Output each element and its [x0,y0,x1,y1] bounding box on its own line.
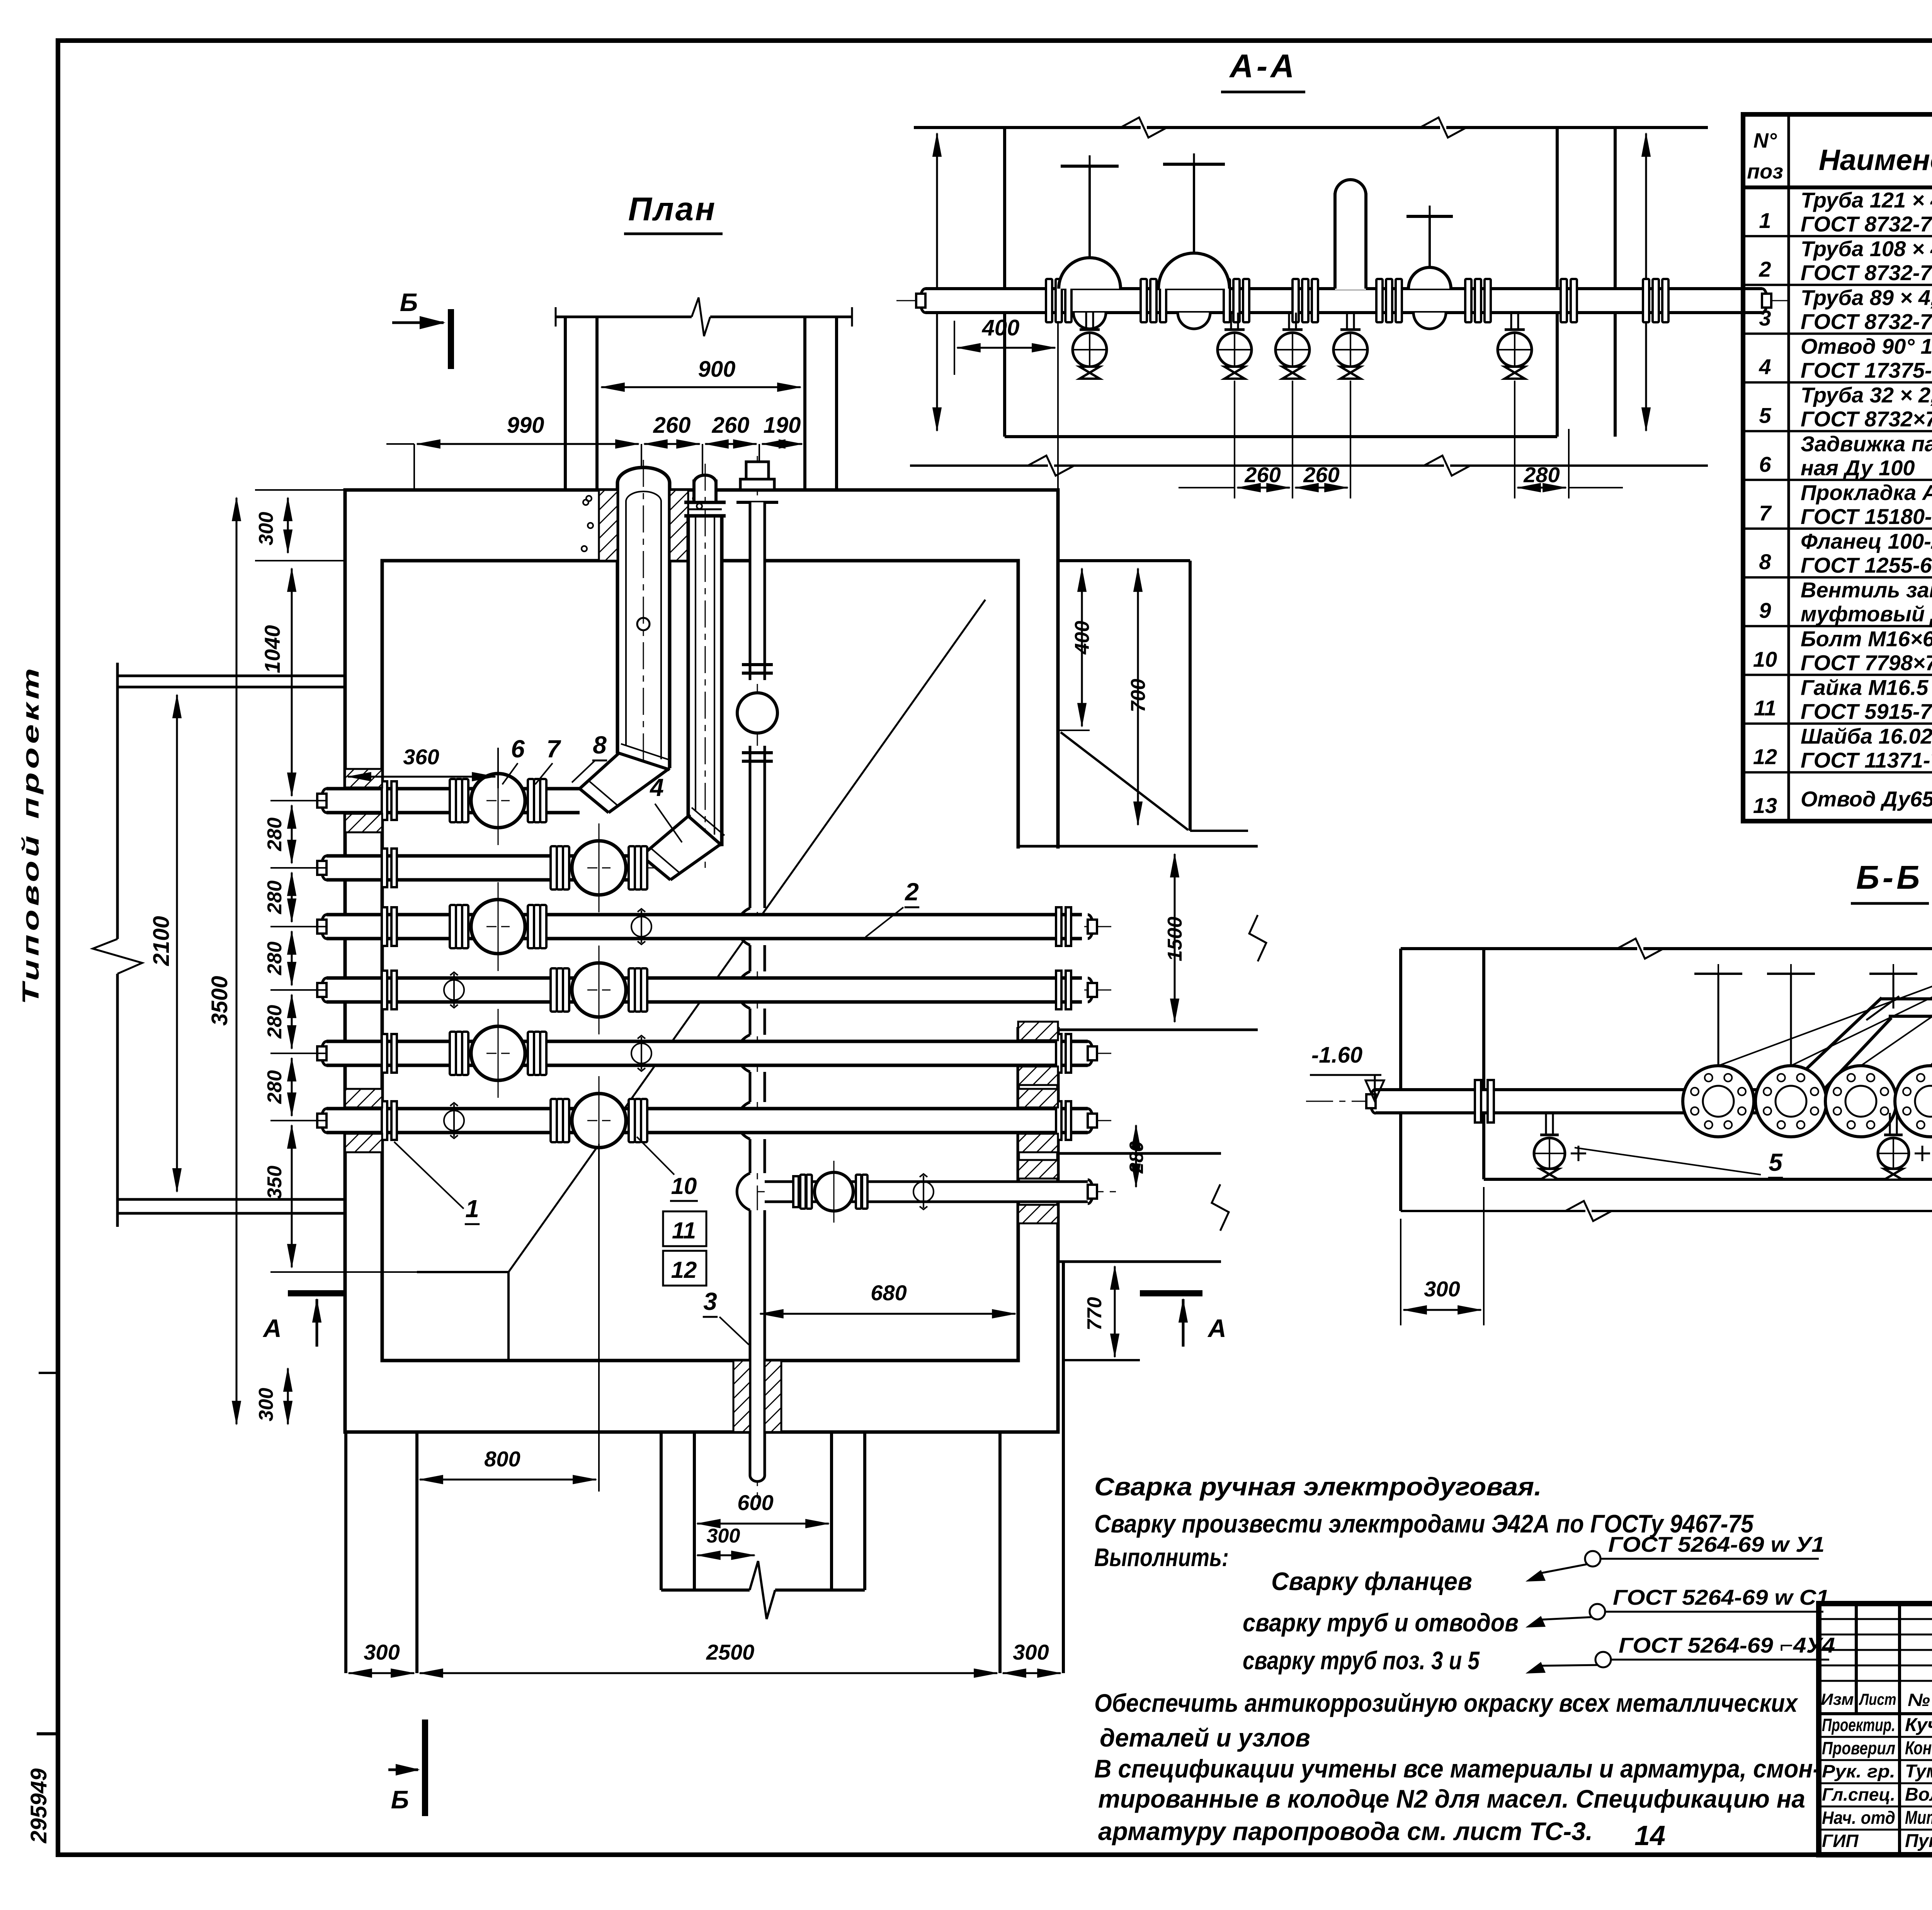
svg-text:ГОСТ 8732-78: ГОСТ 8732-78 [1801,212,1932,236]
svg-text:5: 5 [1769,1148,1783,1176]
svg-text:ГОСТ 11371-78: ГОСТ 11371-78 [1801,748,1932,772]
svg-text:ГОСТ 5915-70 *: ГОСТ 5915-70 * [1801,699,1932,724]
svg-text:ГОСТ 8732-78: ГОСТ 8732-78 [1801,260,1932,285]
svg-text:Кучеренко: Кучеренко [1905,1715,1932,1735]
svg-text:2: 2 [1759,257,1771,281]
svg-text:Болт М16×60.46: Болт М16×60.46 [1801,626,1932,651]
svg-text:Наименование: Наименование [1819,144,1932,177]
svg-text:700: 700 [1127,679,1150,713]
svg-text:2: 2 [905,878,919,906]
svg-text:3: 3 [703,1288,717,1315]
svg-text:2500: 2500 [706,1640,755,1664]
svg-text:400: 400 [982,315,1020,340]
svg-text:ГОСТ 5264-69 ⌐4У4: ГОСТ 5264-69 ⌐4У4 [1619,1633,1835,1657]
svg-text:ГОСТ 17375-77: ГОСТ 17375-77 [1801,358,1932,382]
svg-text:Задвижка параллель-: Задвижка параллель- [1801,432,1932,456]
svg-text:3500: 3500 [207,976,232,1026]
svg-text:300: 300 [1013,1640,1049,1664]
svg-text:Б-Б: Б-Б [1856,859,1923,896]
svg-text:10: 10 [1753,647,1777,671]
svg-text:800: 800 [484,1447,520,1471]
svg-text:260: 260 [1244,463,1281,487]
svg-text:8: 8 [593,731,607,759]
svg-text:Изм: Изм [1821,1690,1854,1708]
svg-text:9: 9 [1759,598,1771,622]
svg-text:12: 12 [671,1257,697,1283]
svg-text:770: 770 [1083,1297,1106,1331]
svg-text:Труба 32 × 2,5: Труба 32 × 2,5 [1801,383,1932,407]
svg-text:900: 900 [698,357,736,382]
svg-text:Кондратенко: Кондратенко [1905,1738,1932,1759]
svg-text:ГОСТ 8732-78: ГОСТ 8732-78 [1801,309,1932,333]
svg-text:-1.60: -1.60 [1311,1043,1362,1068]
svg-text:ГОСТ 7798×70 *: ГОСТ 7798×70 * [1801,650,1932,675]
svg-text:300: 300 [1424,1277,1460,1301]
svg-text:4: 4 [649,774,664,801]
svg-text:Сварка ручная электродуговая: Сварка ручная электродуговая. [1094,1472,1542,1501]
svg-text:300: 300 [707,1525,740,1547]
svg-text:1: 1 [1759,208,1771,233]
svg-text:ГОСТ 5264-69 ᴡ У1: ГОСТ 5264-69 ᴡ У1 [1608,1532,1825,1556]
svg-text:280: 280 [264,818,286,852]
svg-text:Нач. отд: Нач. отд [1822,1808,1895,1828]
svg-text:Отвод Ду65×45°: Отвод Ду65×45° [1801,787,1932,811]
svg-text:10: 10 [671,1173,697,1199]
svg-text:ная Ду 100: ная Ду 100 [1801,456,1915,480]
svg-text:поз: поз [1747,160,1783,183]
svg-text:2100: 2100 [149,916,174,966]
svg-text:Труба 89 × 4,5: Труба 89 × 4,5 [1801,285,1932,310]
svg-text:ГОСТ 1255-67 *: ГОСТ 1255-67 * [1801,553,1932,577]
svg-text:360: 360 [403,745,439,769]
svg-text:Туманов: Туманов [1905,1761,1932,1782]
svg-text:990: 990 [507,413,544,438]
svg-text:А: А [1207,1314,1226,1342]
svg-text:6: 6 [511,735,525,763]
svg-text:арматуру паропровода см. лис: арматуру паропровода см. лист ТС-3. [1098,1817,1593,1845]
svg-text:ГОСТ 5264-69 ᴡ С1: ГОСТ 5264-69 ᴡ С1 [1613,1585,1829,1609]
svg-text:Проектир.: Проектир. [1822,1715,1895,1735]
svg-text:8: 8 [1759,549,1771,574]
svg-text:Труба 108 × 4: Труба 108 × 4 [1801,236,1932,261]
svg-text:Выполнить:: Выполнить: [1094,1543,1229,1572]
svg-text:деталей и узлов: деталей и узлов [1100,1723,1310,1752]
svg-text:Обеспечить антикоррозийную о: Обеспечить антикоррозийную окраску всех … [1094,1689,1798,1717]
svg-text:Шайба 16.02: Шайба 16.02 [1801,724,1932,748]
svg-text:Типовой проект: Типовой проект [18,665,44,1005]
svg-text:Митрофанов: Митрофанов [1905,1808,1932,1828]
svg-text:260: 260 [1303,463,1339,487]
svg-text:14: 14 [1634,1820,1665,1851]
svg-text:А-А: А-А [1229,48,1297,85]
svg-text:350: 350 [264,1166,286,1199]
svg-text:Проверил: Проверил [1822,1738,1895,1758]
svg-text:300: 300 [255,1388,277,1422]
svg-text:N°: N° [1753,129,1777,152]
svg-text:муфтовый Ду 25: муфтовый Ду 25 [1801,602,1932,626]
svg-text:280: 280 [1126,1141,1147,1174]
svg-text:Труба 121 × 4: Труба 121 × 4 [1801,188,1932,212]
svg-text:1500: 1500 [1164,917,1186,961]
svg-text:300: 300 [364,1640,400,1664]
svg-text:7: 7 [546,735,561,763]
svg-text:План: План [628,191,717,228]
svg-text:Вентиль запорный: Вентиль запорный [1801,578,1932,602]
svg-text:5: 5 [1759,403,1771,428]
svg-text:280: 280 [264,881,286,915]
svg-text:12: 12 [1753,745,1777,769]
svg-text:В спецификации учтены все м: В спецификации учтены все материалы и ар… [1094,1754,1821,1783]
svg-text:Волков: Волков [1905,1784,1932,1805]
svg-text:280: 280 [1523,463,1560,487]
svg-text:Фланец 100-25: Фланец 100-25 [1801,529,1932,553]
svg-text:400: 400 [1071,621,1094,655]
svg-text:13: 13 [1753,793,1777,818]
svg-text:6: 6 [1759,452,1771,476]
svg-text:280: 280 [264,942,286,976]
svg-text:Пупышев: Пупышев [1905,1831,1932,1851]
svg-text:Гл.спец.: Гл.спец. [1822,1784,1895,1805]
svg-text:260: 260 [653,413,691,438]
svg-text:ГОСТ 15180-70: ГОСТ 15180-70 [1801,504,1932,529]
svg-text:7: 7 [1759,501,1772,525]
svg-text:ГИП: ГИП [1822,1831,1859,1851]
svg-text:тированные в колодце N2 для: тированные в колодце N2 для масел. Специ… [1098,1784,1805,1813]
svg-text:300: 300 [255,512,277,546]
svg-text:Прокладка А100-6: Прокладка А100-6 [1801,480,1932,505]
svg-text:Рук. гр.: Рук. гр. [1822,1761,1895,1781]
svg-text:Отвод 90° 100С 40: Отвод 90° 100С 40 [1801,334,1932,358]
svg-text:11: 11 [672,1218,696,1243]
svg-text:680: 680 [871,1281,906,1305]
svg-text:сварку труб поз. 3 и 5: сварку труб поз. 3 и 5 [1243,1646,1480,1675]
svg-text:Сварку фланцев: Сварку фланцев [1271,1567,1472,1595]
svg-text:А: А [262,1314,282,1342]
svg-text:11: 11 [1754,696,1776,720]
svg-text:1040: 1040 [260,625,284,674]
svg-text:260: 260 [712,413,750,438]
svg-text:сварку труб и отводов: сварку труб и отводов [1243,1608,1519,1637]
svg-text:3: 3 [1759,306,1771,330]
svg-text:№ докум.: № докум. [1908,1690,1932,1710]
svg-text:4: 4 [1759,354,1771,379]
svg-text:Б: Б [400,288,418,316]
svg-text:ГОСТ 8732×78: ГОСТ 8732×78 [1801,407,1932,431]
svg-text:190: 190 [764,413,801,438]
svg-text:600: 600 [737,1490,773,1515]
svg-text:Б: Б [391,1785,409,1814]
svg-text:1: 1 [465,1195,479,1223]
svg-text:280: 280 [264,1005,286,1039]
svg-text:295949: 295949 [26,1768,51,1844]
svg-text:Лист: Лист [1859,1690,1896,1708]
svg-text:Гайка М16.5: Гайка М16.5 [1801,675,1929,700]
svg-text:280: 280 [264,1070,286,1104]
